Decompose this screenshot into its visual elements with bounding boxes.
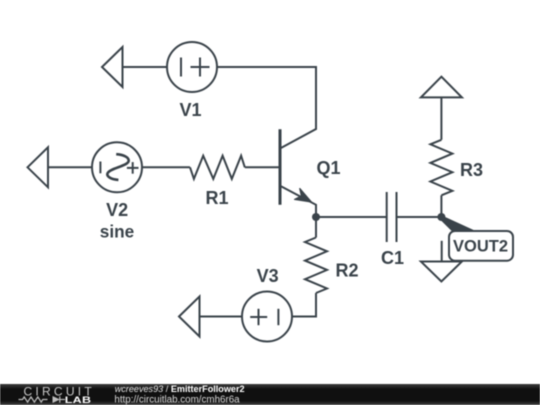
svg-text:Q1: Q1 xyxy=(317,158,341,178)
svg-text:R3: R3 xyxy=(460,160,483,180)
svg-text:V2: V2 xyxy=(106,200,128,220)
svg-text:LAB: LAB xyxy=(65,395,91,405)
svg-text:C1: C1 xyxy=(381,248,404,268)
svg-text:VOUT2: VOUT2 xyxy=(453,237,508,255)
svg-text:V1: V1 xyxy=(179,100,201,120)
svg-text:sine: sine xyxy=(100,222,134,242)
svg-text:wcreeves93 / EmitterFollower2: wcreeves93 / EmitterFollower2 xyxy=(115,384,245,394)
svg-text:R1: R1 xyxy=(205,188,228,208)
svg-text:http://circuitlab.com/cmh6r6a: http://circuitlab.com/cmh6r6a xyxy=(114,394,240,405)
svg-text:V3: V3 xyxy=(257,266,279,286)
svg-text:R2: R2 xyxy=(336,260,359,280)
